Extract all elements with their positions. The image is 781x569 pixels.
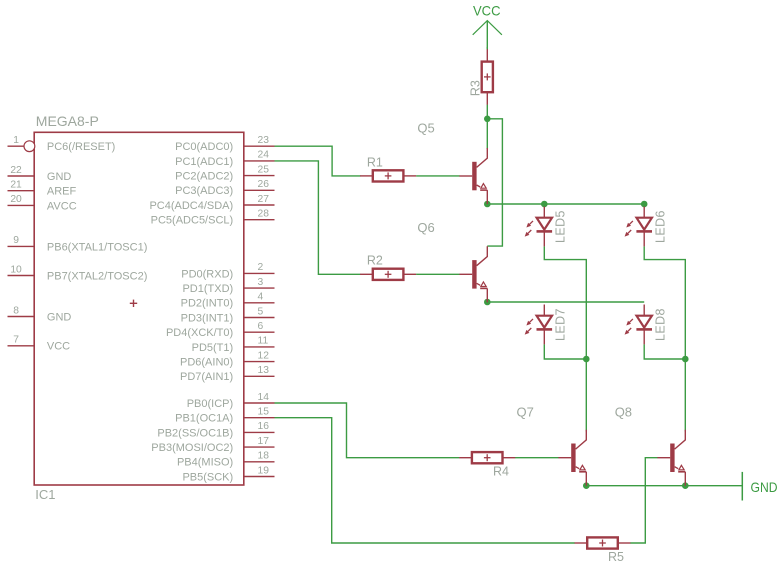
resistor R5 label (608, 550, 624, 564)
svg-text:PC5(ADC5/SCL): PC5(ADC5/SCL) (151, 215, 234, 227)
svg-text:PB3(MOSI/OC2): PB3(MOSI/OC2) (151, 442, 233, 454)
IC1 pin 10 PB7(XTAL2/TOSC2) (8, 264, 148, 282)
LED LED6 (625, 207, 652, 247)
svg-text:PB1(OC1A): PB1(OC1A) (175, 413, 233, 425)
svg-text:PB5(SCK): PB5(SCK) (182, 471, 233, 483)
junction Q5 emitter (484, 201, 491, 208)
wire node A to Q5 collector (486, 119, 488, 149)
wire Q5 emitter to LED5/LED6 anodes (487, 203, 644, 205)
junction LED8 cathode rail (682, 356, 689, 363)
svg-text:R1: R1 (367, 155, 383, 169)
svg-text:AVCC: AVCC (47, 200, 77, 212)
wire R4 to Q7 base (515, 457, 559, 459)
svg-text:17: 17 (258, 436, 270, 447)
transistor Q6 (459, 246, 487, 302)
svg-text:5: 5 (258, 306, 264, 317)
wire LED8 cathode to rail (644, 344, 685, 359)
svg-text:24: 24 (258, 150, 270, 161)
svg-text:25: 25 (258, 164, 270, 175)
svg-text:PD7(AIN1): PD7(AIN1) (180, 371, 233, 383)
IC1 pin 25 PC2(ADC2) (175, 164, 274, 182)
LED LED5 label (554, 210, 568, 243)
IC U1 name IC1 (35, 487, 55, 502)
LED LED7 label (554, 308, 568, 341)
IC1 pin 5 PD3(INT1) (181, 306, 275, 324)
IC1 pin 3 PD1(TXD) (182, 277, 274, 295)
LED LED8 (625, 305, 652, 345)
svg-text:3: 3 (258, 277, 264, 288)
svg-text:PD1(TXD): PD1(TXD) (182, 283, 233, 295)
IC1 pin 20 AVCC (8, 194, 77, 212)
transistor Q5 label (417, 121, 434, 136)
svg-text:PD0(RXD): PD0(RXD) (181, 268, 233, 280)
wire R1 to Q5 base (416, 175, 460, 177)
IC1 pin 19 PB5(SCK) (182, 465, 274, 483)
GND supply symbol (742, 472, 777, 501)
wire node A to Q6 collector (487, 119, 502, 246)
svg-text:PD2(INT0): PD2(INT0) (181, 298, 234, 310)
IC1 pin 6 PD4(XCK/T0) (166, 321, 275, 339)
wire R3 to node A (486, 105, 488, 119)
junction Q8 emitter (682, 482, 689, 489)
svg-text:11: 11 (258, 336, 269, 347)
resistor R1 (360, 170, 416, 181)
svg-text:VCC: VCC (473, 2, 501, 18)
resistor R3 (482, 49, 493, 105)
LED LED6 label (654, 210, 668, 243)
wire LED6 cathode to Q8 collector rail (644, 246, 685, 431)
svg-text:26: 26 (258, 179, 270, 190)
transistor Q7 label (517, 405, 534, 420)
IC1 pin 26 PC3(ADC3) (175, 179, 274, 197)
svg-text:4: 4 (258, 292, 264, 303)
svg-text:PC6(/RESET): PC6(/RESET) (47, 141, 115, 153)
svg-text:PB4(MISO): PB4(MISO) (177, 457, 233, 469)
resistor R2 label (367, 254, 383, 268)
IC1 pin 12 PD6(AIN0) (180, 350, 274, 368)
IC1 pin 8 GND (8, 305, 72, 323)
svg-text:Q7: Q7 (517, 405, 534, 420)
resistor R5 (575, 537, 631, 548)
svg-text:PD6(AIN0): PD6(AIN0) (180, 357, 233, 369)
svg-text:10: 10 (10, 264, 22, 275)
svg-text:PB2(SS/OC1B): PB2(SS/OC1B) (157, 427, 233, 439)
IC1 pin 22 GND (8, 165, 72, 183)
svg-text:LED7: LED7 (554, 308, 568, 341)
svg-text:22: 22 (10, 165, 22, 176)
svg-text:2: 2 (258, 262, 264, 273)
svg-text:R4: R4 (493, 464, 509, 478)
svg-text:GND: GND (47, 171, 72, 183)
wire R5 to Q8 base (630, 458, 657, 543)
svg-text:PC4(ADC4/SDA): PC4(ADC4/SDA) (149, 200, 233, 212)
IC1 pin 14 PB0(ICP) (187, 392, 275, 410)
wire VCC to R3 (486, 47, 488, 49)
IC1 pin 11 PD5(T1) (192, 336, 275, 354)
svg-text:PC0(ADC0): PC0(ADC0) (175, 141, 233, 153)
resistor R4 (459, 452, 515, 463)
svg-text:PD3(INT1): PD3(INT1) (181, 312, 234, 324)
svg-text:15: 15 (258, 407, 270, 418)
svg-text:GND: GND (47, 311, 72, 323)
wire PB1 (pin 15) to R5 (275, 418, 575, 543)
junction Q6 emitter (484, 299, 491, 306)
IC U1 title MEGA8-P (36, 113, 99, 129)
svg-text:28: 28 (258, 209, 270, 220)
svg-text:16: 16 (258, 421, 270, 432)
transistor Q8 label (615, 405, 632, 420)
LED LED7 (525, 305, 552, 345)
svg-text:Q6: Q6 (417, 220, 434, 235)
junction LED6 anode (641, 201, 648, 208)
junction LED5 anode (541, 201, 548, 208)
resistor R2 (360, 269, 416, 280)
IC1 pin 1 PC6(/RESET) (8, 135, 116, 153)
IC1 pin 4 PD2(INT0) (181, 292, 275, 310)
wire R2 to Q6 base (416, 273, 460, 275)
IC1 pin 28 PC5(ADC5/SCL) (151, 209, 275, 227)
svg-text:8: 8 (13, 305, 19, 316)
wire PC0 (pin 23) to R1 (275, 146, 361, 176)
wire Q7/Q8 emitters to GND (586, 485, 742, 487)
junction node A (R3/Q5 collector) (484, 116, 491, 123)
svg-text:VCC: VCC (47, 341, 70, 353)
IC1 pin 16 PB2(SS/OC1B) (157, 421, 274, 439)
LED LED8 label (654, 308, 668, 341)
svg-text:LED5: LED5 (554, 210, 568, 243)
svg-text:IC1: IC1 (35, 487, 55, 502)
svg-text:PB6(XTAL1/TOSC1): PB6(XTAL1/TOSC1) (47, 241, 147, 253)
svg-text:R3: R3 (469, 80, 483, 96)
svg-text:PC2(ADC2): PC2(ADC2) (175, 171, 233, 183)
transistor Q5 (459, 148, 487, 204)
svg-text:AREF: AREF (47, 186, 77, 198)
transistor Q7 (558, 430, 586, 486)
svg-text:12: 12 (258, 350, 270, 361)
VCC supply symbol (473, 2, 502, 48)
svg-text:PD5(T1): PD5(T1) (192, 342, 234, 354)
svg-text:6: 6 (258, 321, 264, 332)
LED LED5 (525, 207, 552, 247)
svg-text:PB0(ICP): PB0(ICP) (187, 398, 233, 410)
svg-text:9: 9 (13, 235, 19, 246)
IC1 pin 18 PB4(MISO) (177, 451, 275, 469)
svg-text:21: 21 (10, 180, 22, 191)
resistor R1 label (367, 155, 383, 169)
resistor R3 label (469, 80, 483, 96)
svg-text:GND: GND (751, 479, 778, 495)
junction LED7 cathode rail (583, 356, 590, 363)
IC1 pin 2 PD0(RXD) (181, 262, 274, 280)
svg-text:R2: R2 (367, 254, 383, 268)
IC1 pin 24 PC1(ADC1) (175, 150, 274, 168)
IC1 pin 27 PC4(ADC4/SDA) (149, 194, 274, 212)
svg-text:1: 1 (13, 135, 19, 146)
wire LED5 cathode to Q7 collector rail (544, 246, 586, 431)
svg-text:18: 18 (258, 451, 270, 462)
svg-text:20: 20 (10, 194, 22, 205)
IC1 pin 7 VCC (8, 335, 71, 353)
IC1 pin 21 AREF (8, 180, 77, 198)
svg-text:PD4(XCK/T0): PD4(XCK/T0) (166, 327, 233, 339)
svg-text:19: 19 (258, 465, 270, 476)
wire PB0 (pin 14) to R4 (275, 403, 460, 458)
svg-text:13: 13 (258, 365, 270, 376)
IC1 pin 17 PB3(MOSI/OC2) (151, 436, 274, 454)
IC1 pin 15 PB1(OC1A) (175, 407, 274, 425)
svg-text:PC1(ADC1): PC1(ADC1) (175, 156, 233, 168)
svg-text:Q5: Q5 (417, 121, 434, 136)
resistor R4 label (493, 464, 509, 478)
svg-text:PC3(ADC3): PC3(ADC3) (175, 185, 233, 197)
svg-text:MEGA8-P: MEGA8-P (36, 113, 99, 129)
svg-text:Q8: Q8 (615, 405, 632, 420)
svg-text:PB7(XTAL2/TOSC2): PB7(XTAL2/TOSC2) (47, 270, 147, 282)
svg-text:R5: R5 (608, 550, 624, 564)
transistor Q8 (657, 430, 685, 486)
wire Q6 emitter to LED7/LED8 anodes (487, 301, 644, 303)
svg-text:23: 23 (258, 135, 270, 146)
svg-text:14: 14 (258, 392, 270, 403)
IC1 pin 13 PD7(AIN1) (180, 365, 274, 383)
wire LED7 cathode to rail (544, 344, 586, 359)
svg-text:7: 7 (13, 335, 19, 346)
svg-text:LED8: LED8 (654, 308, 668, 341)
wire PC1 (pin 24) to R2 (275, 161, 361, 274)
junction Q7 emitter (583, 482, 590, 489)
IC U1 MEGA8-P body (34, 132, 244, 485)
svg-text:LED6: LED6 (654, 210, 668, 243)
IC1 pin 9 PB6(XTAL1/TOSC1) (8, 235, 148, 253)
transistor Q6 label (417, 220, 434, 235)
IC1 pin 23 PC0(ADC0) (175, 135, 274, 153)
IC U1 origin cross (130, 300, 137, 307)
svg-text:27: 27 (258, 194, 270, 205)
